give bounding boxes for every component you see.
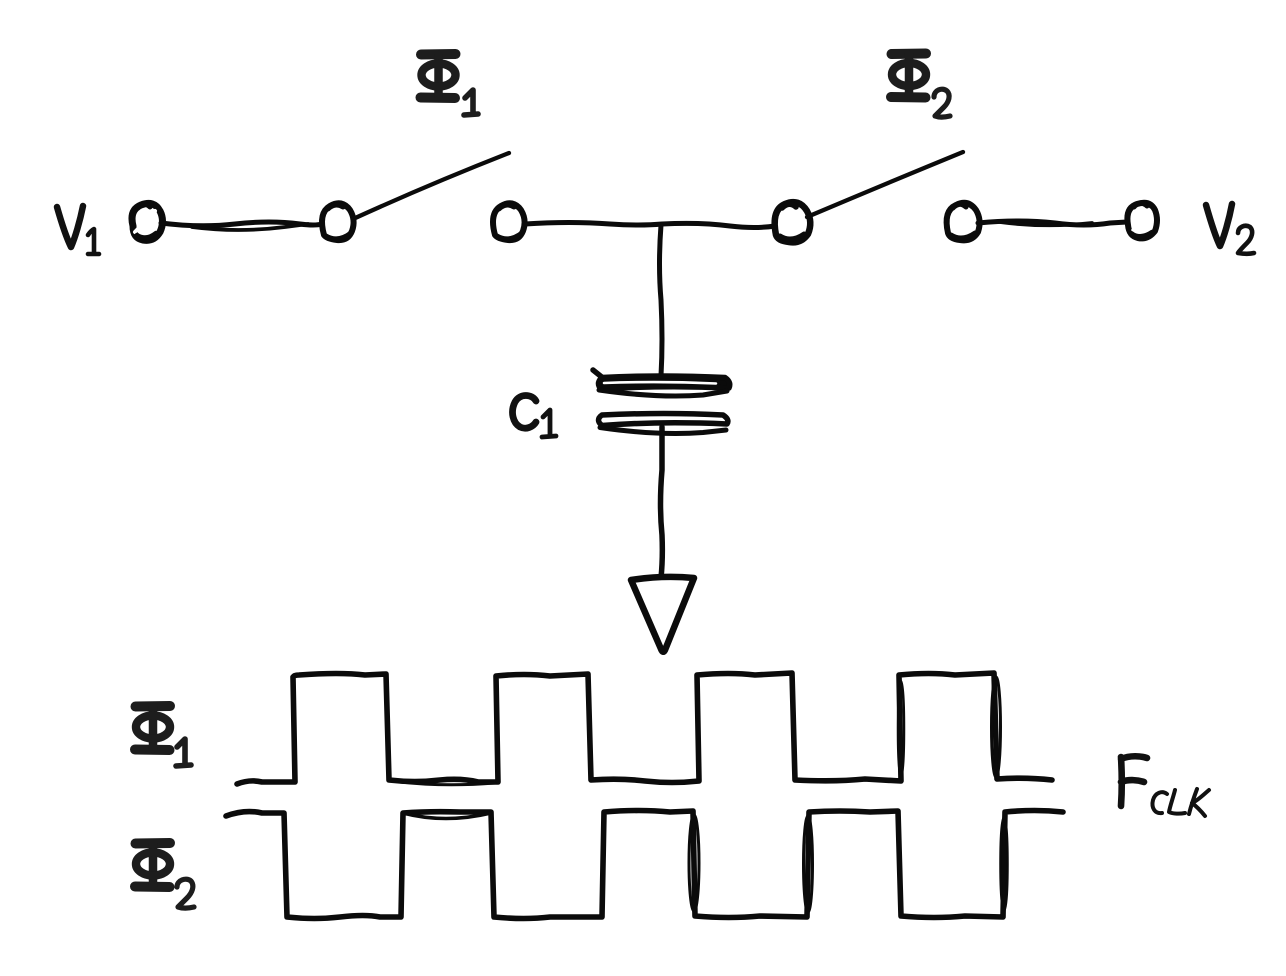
waveform PHI2 lens on rising edge 4	[1001, 817, 1008, 911]
waveform PHI1	[237, 673, 1052, 784]
waveform PHI2	[226, 811, 1063, 919]
subscript 1 of PHI1	[464, 90, 478, 115]
label PHI1 waveform	[135, 706, 170, 750]
waveform PHI2 lens on falling edge 3	[689, 815, 699, 911]
label FCLK	[1121, 756, 1209, 816]
switch S1 output terminal	[493, 203, 525, 240]
waveform PHI1 baseline doubling	[400, 782, 495, 785]
label V2	[1206, 204, 1254, 254]
subscript 1 of waveform PHI1	[176, 739, 191, 766]
wire V1 node to switch1 pivot	[161, 222, 322, 226]
waveform PHI1 overdraw lens on falling edge 4	[992, 677, 1001, 777]
wire overdraw doubling	[1000, 222, 1092, 225]
label V1	[57, 206, 99, 254]
label C1	[513, 396, 556, 438]
waveform PHI2 lens on rising edge 3	[804, 816, 813, 912]
capacitor C1 bottom plate	[599, 414, 728, 434]
label PHI2 top	[891, 54, 926, 98]
node junction vertical wire to capacitor	[660, 225, 663, 376]
switch S2 output terminal	[947, 203, 980, 240]
label PHI1 top	[421, 54, 456, 98]
terminal node at V2	[1127, 203, 1157, 239]
capacitor C1 top plate	[593, 370, 730, 396]
switch S2 lever	[807, 152, 963, 217]
switch S2 pivot terminal	[775, 202, 811, 242]
switch S1 pivot terminal	[322, 203, 354, 240]
subscript 2 of waveform PHI2	[177, 879, 194, 908]
waveform PHI1 overdraw lens on rising edge 4	[898, 681, 904, 777]
switch S1 lever	[353, 153, 509, 219]
label PHI2 waveform	[135, 843, 170, 887]
wire switch1 to switch2 through node	[525, 223, 775, 228]
waveform PHI2 top overdraw lens	[403, 813, 491, 819]
subscript 2 of PHI2	[934, 89, 950, 117]
wire switch2 to V2 node	[978, 221, 1127, 225]
wire overdraw doubling	[192, 224, 308, 230]
ground arrow	[631, 577, 694, 652]
wire capacitor to ground arrow	[661, 427, 663, 578]
terminal node at V1	[132, 203, 163, 240]
